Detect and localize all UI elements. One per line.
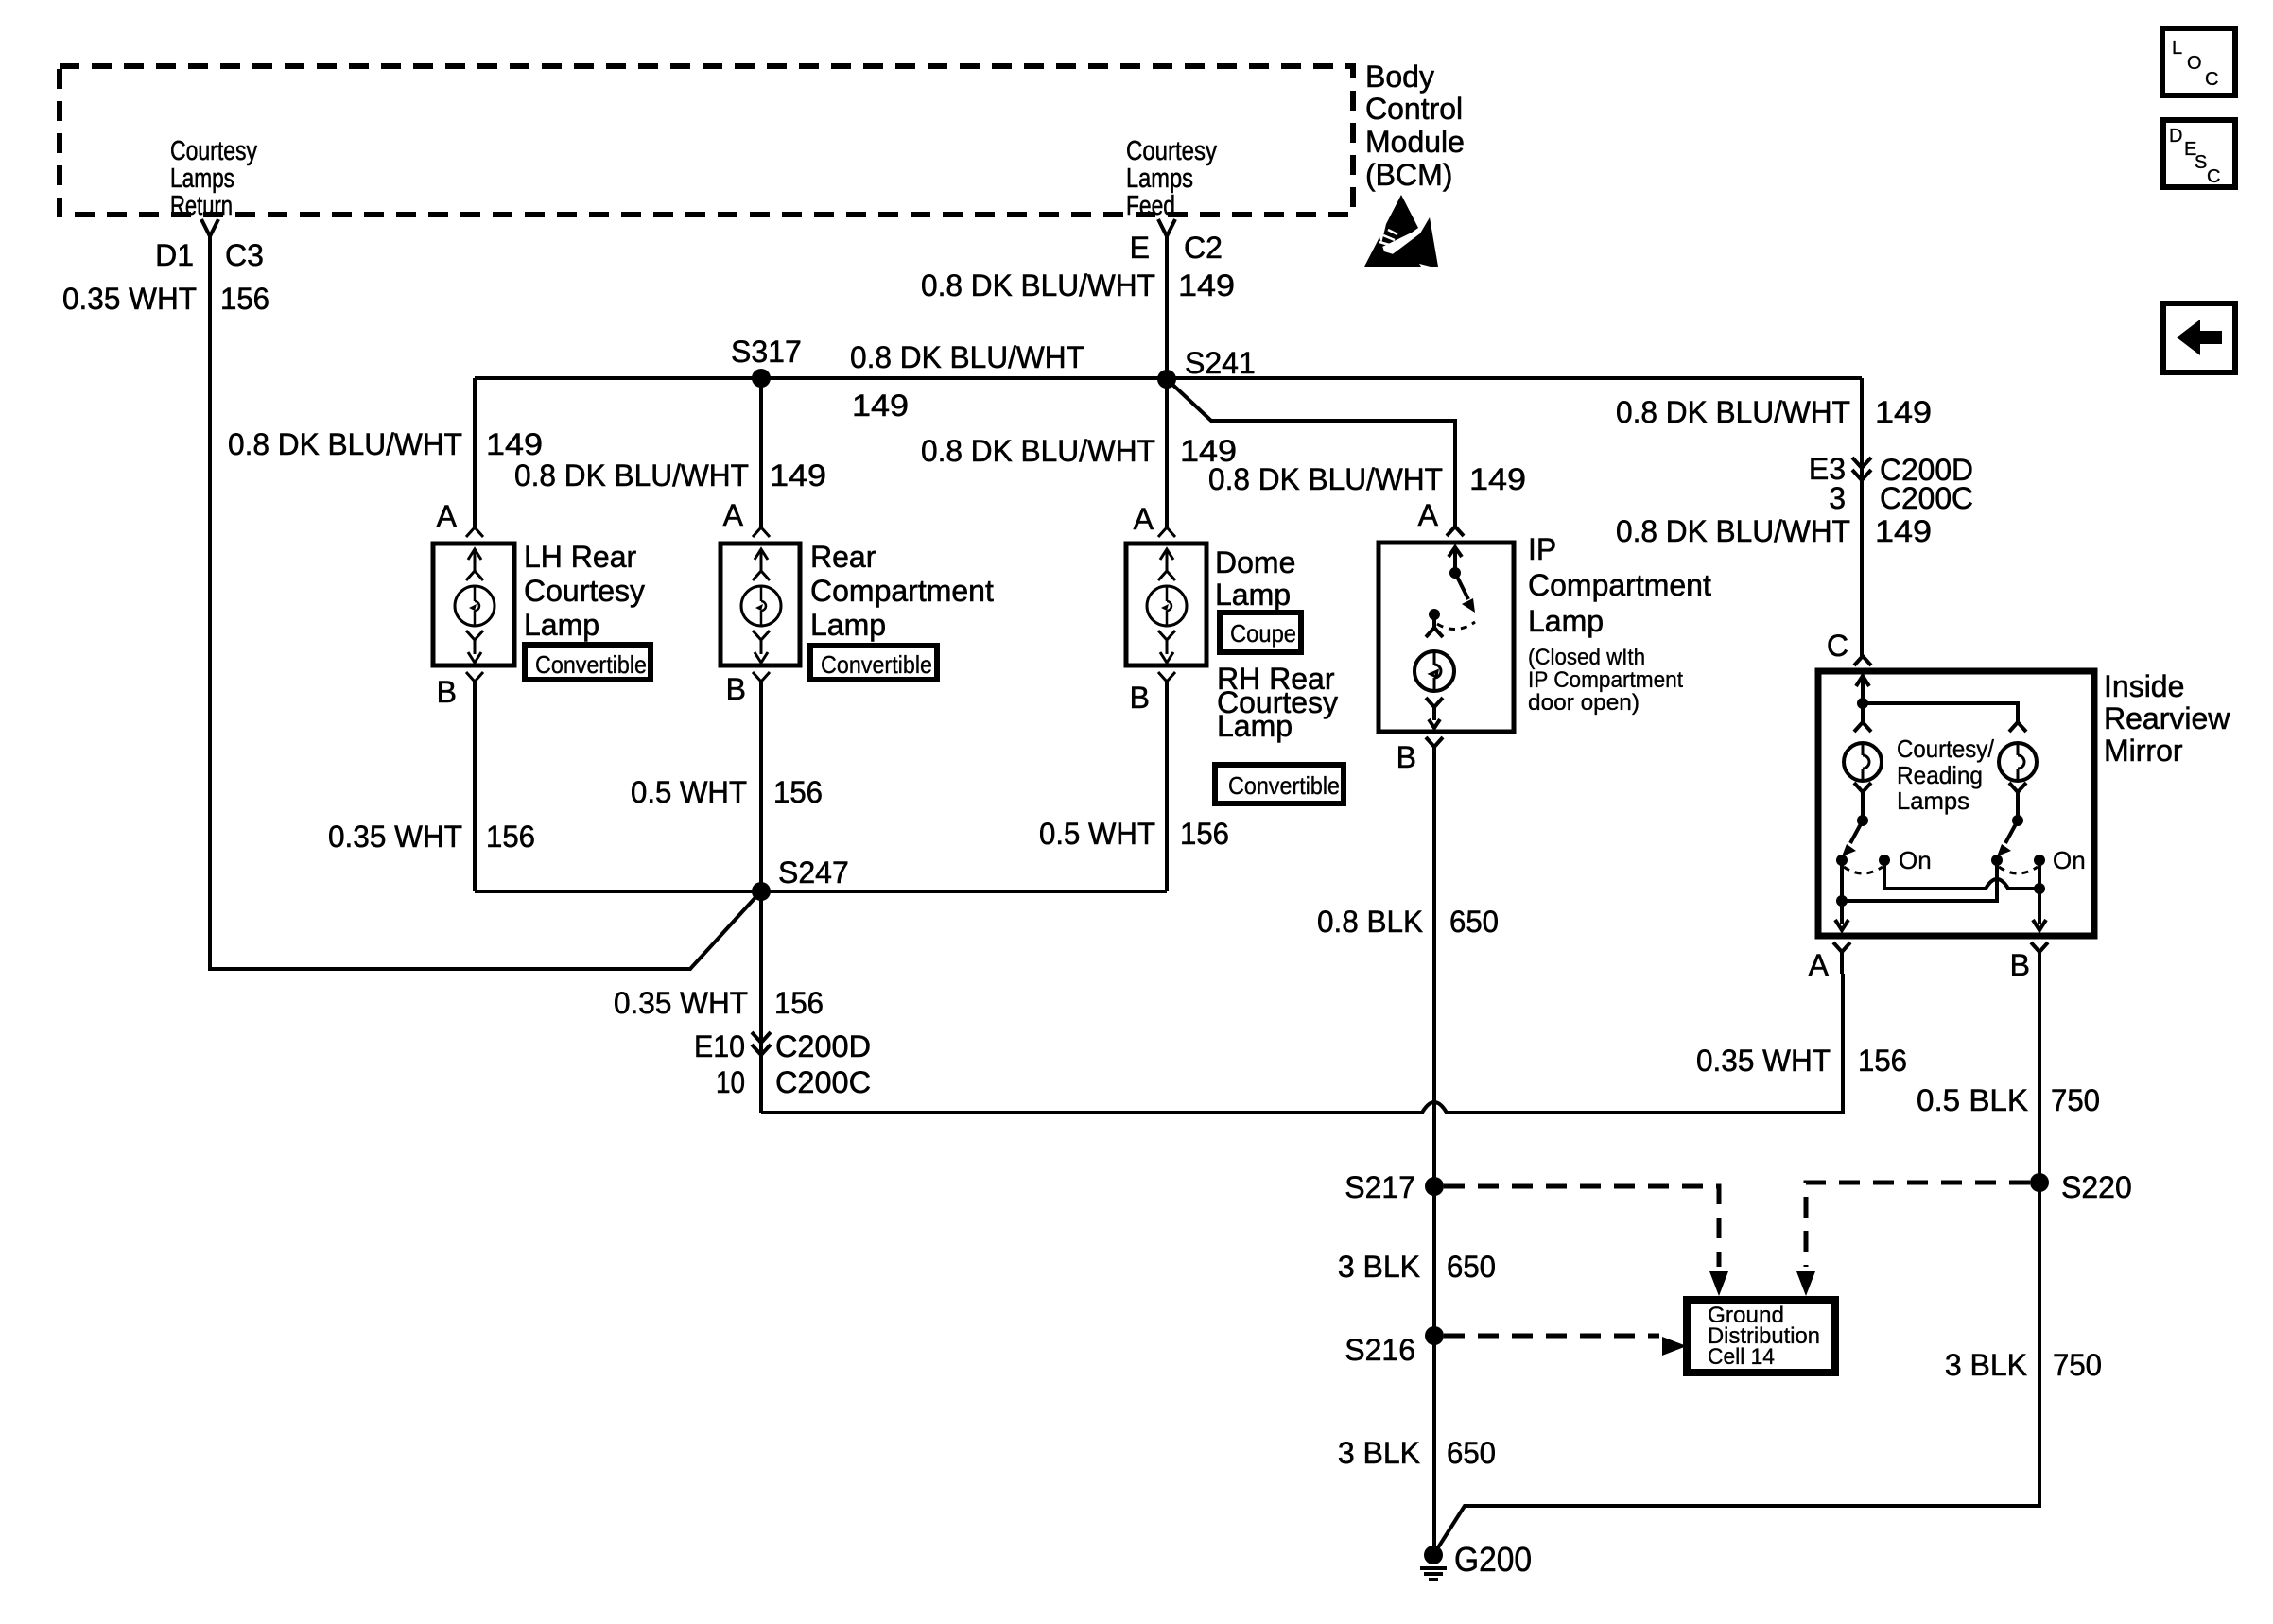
- Convertible tag (LH lamp): [525, 645, 651, 680]
- svg-text:149: 149: [1178, 268, 1235, 302]
- svg-text:C: C: [2205, 69, 2218, 90]
- wire dome lamp B down to S247 rail: [1165, 681, 1169, 891]
- lamp Rear Compartment Lamp: [720, 498, 994, 706]
- svg-text:10: 10: [716, 1065, 745, 1099]
- back-arrow box: [2163, 303, 2235, 372]
- svg-text:149: 149: [486, 427, 543, 461]
- svg-text:0.35 WHT: 0.35 WHT: [1696, 1044, 1831, 1078]
- LOC box: [2162, 28, 2235, 95]
- svg-text:S216: S216: [1345, 1333, 1415, 1367]
- svg-text:A: A: [1134, 502, 1154, 536]
- label 0.5 WHT 156 (RC lamp return): [631, 775, 823, 809]
- svg-text:3 BLK: 3 BLK: [1945, 1348, 2027, 1382]
- label 0.5 WHT 156 (dome lamp return): [1039, 817, 1229, 851]
- Convertible tag (RC lamp): [810, 646, 937, 680]
- switch-lamp IP Compartment Lamp: [1379, 498, 1711, 774]
- svg-text:IP Compartment: IP Compartment: [1528, 667, 1683, 693]
- label Body Control Module (BCM): [1365, 60, 1465, 192]
- mirror left courtesy/reading lamp: [1844, 722, 1882, 821]
- svg-text:0.35 WHT: 0.35 WHT: [614, 986, 748, 1020]
- svg-text:IP: IP: [1528, 532, 1556, 566]
- svg-text:Courtesy: Courtesy: [1126, 136, 1217, 166]
- svg-text:S241: S241: [1185, 346, 1256, 380]
- label 3 BLK 650 (upper): [1338, 1250, 1496, 1284]
- connector E3 C200D/C200C: [1809, 452, 1973, 515]
- svg-text:0.8 DK BLU/WHT: 0.8 DK BLU/WHT: [1616, 395, 1850, 429]
- node S247: [752, 855, 849, 901]
- svg-text:On: On: [1899, 846, 1932, 874]
- svg-text:Mirror: Mirror: [2104, 734, 2183, 768]
- wire main horizontal S317/S241 rail: [475, 376, 1862, 380]
- svg-text:C: C: [1827, 629, 1848, 663]
- mirror internal: entry arrow and split: [1856, 676, 2018, 722]
- wire 0.8 DK BLU/WHT 149 from pin E/C2 down to S241: [1165, 236, 1169, 379]
- wire S247 horizontal rail: [475, 890, 1167, 893]
- svg-text:(Closed wIth: (Closed wIth: [1528, 645, 1645, 670]
- node S220: [2030, 1170, 2132, 1204]
- svg-text:S247: S247: [778, 855, 849, 890]
- svg-text:0.5 WHT: 0.5 WHT: [631, 775, 747, 809]
- svg-text:B: B: [1130, 681, 1150, 715]
- Convertible tag (dome lamp): [1215, 765, 1344, 803]
- svg-text:0.8 DK BLU/WHT: 0.8 DK BLU/WHT: [514, 458, 749, 492]
- svg-text:156: 156: [220, 282, 269, 316]
- node S216: [1345, 1326, 1444, 1367]
- svg-text:Courtesy: Courtesy: [170, 136, 257, 166]
- pin E/C2 of BCM: [1130, 219, 1223, 265]
- svg-text:B: B: [2010, 948, 2030, 982]
- mirror pin A: [1809, 942, 1850, 982]
- label 0.8 DK BLU/WHT 149 (below E3): [1616, 514, 1932, 548]
- svg-text:650: 650: [1447, 1436, 1496, 1470]
- svg-text:O: O: [2187, 53, 2202, 74]
- svg-text:156: 156: [486, 820, 535, 854]
- svg-text:750: 750: [2053, 1348, 2102, 1382]
- label Courtesy Lamps Feed: [1126, 136, 1217, 221]
- Coupe tag (dome lamp): [1220, 613, 1301, 652]
- ground G200: [1420, 1540, 1532, 1580]
- svg-text:L: L: [2172, 38, 2182, 59]
- mirror right courtesy/reading lamp: [1999, 722, 2037, 821]
- wire 0.35 WHT from C200 connector to mirror pin A (with hop): [761, 974, 1843, 1113]
- svg-text:S317: S317: [731, 335, 802, 369]
- component Inside Rearview Mirror: [1818, 656, 2230, 936]
- svg-text:On: On: [2053, 846, 2086, 874]
- svg-text:Rearview: Rearview: [2104, 701, 2230, 735]
- svg-text:E: E: [1130, 231, 1150, 265]
- svg-text:156: 156: [1858, 1044, 1907, 1078]
- svg-text:G200: G200: [1454, 1540, 1532, 1579]
- svg-text:Compartment: Compartment: [1528, 568, 1711, 602]
- label 0.8 DK BLU/WHT 149 (RC lamp feed): [514, 458, 826, 492]
- mirror left switch: [1836, 815, 1932, 874]
- svg-text:3: 3: [1829, 481, 1846, 515]
- svg-text:3 BLK: 3 BLK: [1338, 1436, 1420, 1470]
- svg-text:3 BLK: 3 BLK: [1338, 1250, 1420, 1284]
- svg-text:Courtesy/: Courtesy/: [1897, 734, 1995, 763]
- svg-text:S217: S217: [1345, 1170, 1415, 1204]
- svg-text:149: 149: [1875, 514, 1932, 548]
- ESD symbol: [1364, 195, 1438, 267]
- svg-text:A: A: [1809, 948, 1830, 982]
- svg-text:Lamp: Lamp: [524, 608, 599, 642]
- svg-text:650: 650: [1449, 905, 1499, 939]
- svg-text:Inside: Inside: [2104, 669, 2184, 703]
- wire rail to E3 connector and mirror C: [1860, 378, 1864, 656]
- dashed wire S217 to ground distribution: [1444, 1186, 1728, 1296]
- wire mirror pin B down to ground run: [1433, 974, 2039, 1555]
- svg-text:Return: Return: [170, 191, 233, 221]
- label 0.35 WHT 156 (left return wire): [62, 282, 269, 316]
- label 0.8 DK BLU/WHT 149 (IP lamp feed): [1208, 462, 1526, 496]
- svg-text:S: S: [2195, 152, 2207, 173]
- svg-text:0.8 DK BLU/WHT: 0.8 DK BLU/WHT: [1208, 462, 1443, 496]
- svg-text:0.35 WHT: 0.35 WHT: [328, 820, 462, 854]
- mirror pin B: [2010, 942, 2048, 982]
- svg-text:Convertible: Convertible: [821, 650, 932, 679]
- svg-text:0.8 DK BLU/WHT: 0.8 DK BLU/WHT: [228, 427, 462, 461]
- svg-text:149: 149: [770, 458, 826, 492]
- label Courtesy Lamps Return: [170, 136, 257, 221]
- mirror internal wiring to pins: [1835, 860, 2046, 930]
- label 0.35 WHT 156 (S247 to C200 connector): [614, 986, 824, 1020]
- svg-text:S220: S220: [2061, 1170, 2132, 1204]
- svg-text:650: 650: [1447, 1250, 1496, 1284]
- svg-text:Lamps: Lamps: [1897, 786, 1969, 815]
- wire RC lamp feed drop: [759, 378, 763, 527]
- svg-text:B: B: [1397, 740, 1416, 774]
- svg-text:C3: C3: [225, 238, 264, 272]
- BCM dashed box (Body Control Module): [60, 66, 1353, 215]
- wire RC lamp B down through S247 and E10: [759, 681, 763, 1113]
- svg-text:Lamp: Lamp: [1215, 578, 1291, 612]
- wire LH lamp B down to S247 rail: [473, 681, 477, 891]
- svg-text:0.5 BLK: 0.5 BLK: [1917, 1083, 2028, 1117]
- lamp LH Rear Courtesy Lamp: [433, 499, 645, 709]
- wire IP lamp B down to G200: [1432, 747, 1436, 1555]
- svg-text:750: 750: [2051, 1083, 2100, 1117]
- svg-text:Lamps: Lamps: [170, 164, 234, 194]
- svg-text:0.8 DK BLU/WHT: 0.8 DK BLU/WHT: [1616, 514, 1850, 548]
- label 0.8 BLK 650: [1317, 905, 1499, 939]
- node S217: [1345, 1170, 1444, 1204]
- svg-text:Control: Control: [1365, 92, 1463, 126]
- svg-text:Lamp: Lamp: [1217, 709, 1293, 743]
- svg-text:D: D: [2169, 126, 2182, 147]
- Ground Distribution Cell 14 box: [1687, 1300, 1835, 1373]
- svg-text:Courtesy: Courtesy: [524, 574, 645, 608]
- wire S241 diagonal to IP lamp feed: [1167, 379, 1455, 527]
- svg-text:Compartment: Compartment: [810, 574, 994, 608]
- node S317: [731, 335, 802, 388]
- svg-text:Lamp: Lamp: [1528, 604, 1604, 638]
- label 3 BLK 750: [1945, 1348, 2102, 1382]
- svg-text:156: 156: [773, 775, 823, 809]
- svg-text:156: 156: [1180, 817, 1229, 851]
- label 0.5 BLK 750: [1917, 1083, 2100, 1117]
- label Courtesy/Reading Lamps: [1897, 734, 1995, 815]
- node S241: [1157, 346, 1256, 389]
- svg-text:0.5 WHT: 0.5 WHT: [1039, 817, 1155, 851]
- connector E10 C200D/C200C: [694, 1029, 871, 1099]
- svg-text:Coupe: Coupe: [1230, 619, 1296, 648]
- svg-text:Feed: Feed: [1126, 191, 1175, 221]
- svg-text:B: B: [437, 675, 457, 709]
- label 3 BLK 650 (lower): [1338, 1436, 1496, 1470]
- svg-text:0.8 DK BLU/WHT: 0.8 DK BLU/WHT: [850, 340, 1084, 374]
- svg-text:C200D: C200D: [775, 1029, 871, 1063]
- svg-text:C2: C2: [1184, 231, 1223, 265]
- svg-text:E10: E10: [694, 1029, 745, 1063]
- label 0.8 DK BLU/WHT 149 (above E3): [1616, 395, 1932, 429]
- wire Dome lamp feed drop: [1165, 379, 1169, 527]
- label 0.8 DK BLU/WHT 149 (dome lamp feed): [921, 434, 1237, 468]
- svg-text:Module: Module: [1365, 125, 1465, 159]
- label 0.8 DK BLU/WHT 149 (S317-S241 rail): [850, 340, 1084, 423]
- svg-text:156: 156: [774, 986, 824, 1020]
- svg-text:(BCM): (BCM): [1365, 158, 1452, 192]
- svg-text:Convertible: Convertible: [1228, 771, 1340, 800]
- lamp Dome Lamp: [1126, 502, 1295, 715]
- svg-text:C200C: C200C: [1880, 481, 1973, 515]
- svg-text:0.8 DK BLU/WHT: 0.8 DK BLU/WHT: [921, 268, 1155, 302]
- svg-text:A: A: [1418, 498, 1439, 532]
- mirror right switch: [1991, 815, 2086, 874]
- svg-text:149: 149: [852, 389, 909, 423]
- dashed wire S216 to ground distribution: [1444, 1336, 1687, 1356]
- dashed wire S220 to ground distribution: [1796, 1183, 2030, 1296]
- svg-text:Lamp: Lamp: [810, 608, 886, 642]
- wire 0.35 WHT 156 from pin D1/C3 down-right to S247: [210, 236, 758, 969]
- pin D1/C3 of BCM: [155, 219, 264, 272]
- svg-text:Cell 14: Cell 14: [1708, 1344, 1775, 1370]
- svg-text:Dome: Dome: [1215, 545, 1295, 579]
- label 0.8 DK BLU/WHT 149 (LH lamp feed): [228, 427, 543, 461]
- svg-text:C200C: C200C: [775, 1065, 871, 1099]
- label RH Rear Courtesy Lamp: [1217, 662, 1338, 743]
- svg-text:LH Rear: LH Rear: [524, 540, 637, 574]
- svg-text:Reading: Reading: [1897, 761, 1983, 789]
- pin C label: [1827, 629, 1848, 663]
- svg-text:149: 149: [1875, 395, 1932, 429]
- svg-text:Convertible: Convertible: [535, 650, 647, 679]
- svg-text:A: A: [723, 498, 744, 532]
- label 0.35 WHT 156 (mirror pin A wire): [1696, 1044, 1907, 1078]
- svg-text:C: C: [2207, 166, 2220, 187]
- label 0.35 WHT 156 (LH lamp return): [328, 820, 535, 854]
- svg-text:B: B: [726, 672, 746, 706]
- label 0.8 DK BLU/WHT 149 (feed wire at BCM): [921, 268, 1235, 302]
- svg-text:door open): door open): [1528, 690, 1640, 716]
- svg-text:149: 149: [1469, 462, 1526, 496]
- svg-text:0.8 BLK: 0.8 BLK: [1317, 905, 1423, 939]
- svg-text:0.35 WHT: 0.35 WHT: [62, 282, 197, 316]
- svg-text:Rear: Rear: [810, 540, 876, 574]
- wire LH lamp feed drop: [473, 378, 477, 527]
- svg-text:0.8 DK BLU/WHT: 0.8 DK BLU/WHT: [921, 434, 1155, 468]
- svg-text:Body: Body: [1365, 60, 1434, 94]
- DESC box: [2163, 120, 2235, 187]
- svg-text:A: A: [437, 499, 458, 533]
- svg-text:D1: D1: [155, 238, 194, 272]
- svg-text:Lamps: Lamps: [1126, 164, 1193, 194]
